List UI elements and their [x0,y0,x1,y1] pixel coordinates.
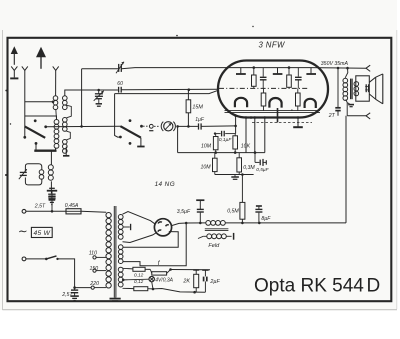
label 2,5T (C10) [61,292,73,298]
wire rectifier heater return [123,232,179,248]
svg-text:8µF: 8µF [261,216,271,222]
capacitor C12 8uF [255,206,262,223]
svg-text:Opta RK 544: Opta RK 544 [254,276,364,297]
fuse F1 0.45A [66,209,81,214]
wire grid node down to C4 [235,126,237,134]
wire junction bar (heavy) [34,150,56,152]
wire antenna node to coil tap [25,101,55,104]
wire pickup node down [177,126,179,152]
label 10M (R2) [201,143,212,149]
variable capacitor CV (tuning) to ground [94,90,104,103]
svg-text:0,12: 0,12 [134,273,144,279]
coil L1 long winding (lower left column) [54,109,59,148]
pickup symbol (detector) TA [154,122,175,131]
label 2uF [209,279,220,285]
tube internal grid dash-dot line [219,87,308,89]
wire L2 inter-winding jog bracket [67,105,72,118]
speaker LS cone [369,74,383,104]
wire pickup node to C3 [178,125,198,127]
label 0,3M [243,165,255,171]
antenna input terminal fork 1 [22,66,28,70]
tube anode hook A1 [235,98,247,107]
label Feld [208,243,220,249]
wire B+ node to field coil [186,222,206,224]
mains switch SW3 [26,256,59,260]
label 350V 35mA [321,61,349,67]
capacitor C9 2.5T line filter [48,191,55,211]
svg-text:0,45A: 0,45A [65,203,79,209]
tube heater lines [225,111,321,113]
tube pin wire 4 (rail end) [264,116,267,152]
svg-text:D: D [367,276,381,297]
wire grid line to tube (y90) [121,88,218,91]
svg-text:∼: ∼ [18,226,28,238]
capacitor C8 2T on drop [335,68,340,116]
wire SW1 left vertical [24,116,26,137]
wire L4 top to junction bar [50,151,52,165]
transformer T1 primary winding [106,213,111,289]
tube pin cathode ground [293,116,303,127]
wire second grid line (y93.6) [115,91,218,94]
capacitor C60 series 60pF [119,87,122,93]
wire SW3 to voltage selector [58,259,76,289]
wire speaker return drop to B+ rail [259,116,346,223]
ground symbol under C2 [49,200,56,205]
wire SW1 bottom to junction bar [35,143,37,150]
wire HT winding to rectifier anode top [123,212,155,224]
node pickup output [176,125,179,128]
rectifier tube U2 envelope [154,219,171,236]
wire SW1 top rail [25,116,57,120]
schematic border frame [8,38,392,301]
svg-text:110: 110 [89,251,97,257]
dial lamp LP 4V/0.3A [149,276,154,281]
capacitor C10 2.5T to ground [71,288,78,296]
wire trimmer-line drop at left [80,69,83,128]
capacitor C2 to ground [48,194,55,199]
tube anode hook A3 [305,99,316,108]
resistor R11 0.12 upper [123,267,151,271]
svg-text:15M: 15M [192,105,203,111]
connector fork speaker return [366,113,370,119]
tube grid-cap electrode T2 [273,68,283,74]
label 2K [182,279,190,285]
transformer T1 rectifier heater winding [118,245,123,264]
label f (fuse) [158,260,161,267]
resistor R4 10M (second) [213,153,218,175]
tube pin wire 3 [250,116,256,152]
coil L2 upper winding (tuned secondary) [63,96,68,110]
coil L2 lower winding [63,140,68,154]
svg-text:60: 60 [117,81,123,87]
mains terminal P2 [22,257,26,261]
svg-text:14 NG: 14 NG [155,181,175,188]
svg-text:0,3M: 0,3M [243,165,255,171]
field lower winding end bar [226,233,233,240]
capacitor C5 0.5uF to output grid [255,153,266,166]
resistor R1 15M grid leak [186,90,191,128]
capacitor C3 1uF coupling [199,123,202,129]
label 3NFW [259,40,285,49]
resistor R5 0.3M [237,153,242,175]
wire coil L1 bottom to junction bar [55,148,57,150]
output transformer T2 secondary [354,82,359,96]
svg-text:0,5M: 0,5M [227,208,239,214]
svg-text:2T: 2T [328,113,336,119]
ground under output transformer [347,103,354,107]
capacitor C13 2uF [202,270,208,292]
label 0,5uF [256,167,269,173]
wire lamp bottom [152,282,155,291]
switch SW1 arm [23,119,47,144]
coil L2 middle winding [63,118,68,132]
ground symbol under CV [96,104,102,106]
power rating box 45 W [31,227,52,237]
loop antenna frame box [25,164,41,185]
voltage tap 150 [90,266,107,272]
svg-text:1µF: 1µF [195,117,205,123]
label 1uF [195,117,205,123]
switch SW2 arm [120,119,143,145]
ground stub under L2 [63,155,69,157]
svg-text:2µF: 2µF [209,279,220,285]
phono jack J1 [149,124,153,130]
AC symbol [18,226,28,238]
capacitor C6 inside tube [260,68,267,89]
label 0,5M [227,208,239,214]
fuse f element [150,269,170,275]
svg-text:10M: 10M [201,143,212,149]
wire L4 bottom to capacitor [50,181,52,193]
capacitor C7 inside tube [295,68,302,89]
antenna input terminal fork 2 [53,66,59,70]
wire L2 lower bottom to ground stub [65,147,67,156]
wire antenna fork2 down to coil L1 [55,70,57,95]
resistor R8 inside tube lower [261,88,266,110]
svg-text:4V/0,3A: 4V/0,3A [155,278,173,284]
wire drop x114.6 to SW2 contact [115,94,122,139]
antenna A2 (main aerial arrow) [36,47,46,69]
trimmer capacitor CT2 in loop frame [19,169,27,179]
wire speaker return line [347,115,366,117]
coil L3 loops on loop frame [39,170,44,179]
capacitor C4 0.1uF grid [214,131,236,137]
speaker LS driver body [356,76,370,101]
label 4V/0,3A [155,278,173,284]
wire rectifier cathode to B+ node [172,222,188,226]
ground under transformer core [110,298,121,301]
rectifier electrodes [158,222,169,232]
wire tuned rail y90 [65,89,118,92]
coil L1 primary winding (upper left column) [53,96,58,110]
wire trimmer line (top horizontal rail) [82,68,311,69]
svg-text:0,1µF: 0,1µF [219,137,232,143]
label 0,45A [65,203,79,209]
trimmer capacitor CT1 [116,62,124,73]
speaker LS voice coil bars [365,84,369,92]
tube pin wire 2 [245,116,248,152]
wire mains line 1 [26,210,66,213]
connector fork plate line [366,65,370,71]
resistor R10 0.5M [240,175,245,223]
label 2T [328,113,336,119]
transformer T1 HT secondary winding [118,215,123,240]
svg-text:2,5T: 2,5T [34,204,46,210]
svg-text:2,5T: 2,5T [61,292,73,298]
voltage tap 220 [89,281,106,289]
svg-text:3 NFW: 3 NFW [259,40,285,49]
transformer T1 core [114,206,116,298]
wire B+ rail after choke [226,222,261,225]
resistor R12 0.12 lower [123,287,154,291]
resistor R2 10M [213,134,218,153]
wire SW1 pole to SW2 [46,125,121,128]
wire 350V plate line [311,67,366,70]
wire heater winding lower lead [123,223,187,266]
wire antenna fork1 down to node [24,70,26,116]
wire bias rail y174.5 [215,173,254,176]
tube grid-cap electrode T1 [236,68,246,74]
wire lamp network bottom rail [153,289,206,294]
label 10K [241,143,251,149]
field choke L6 lower winding [198,234,226,239]
label 60 [117,81,123,87]
resistor R7 inside tube [287,66,292,88]
transformer T1 lamp/heater winding [118,267,123,287]
wire HT winding to rectifier anode bottom [123,233,157,243]
wire selector to 220 tap [75,287,91,289]
wire winding tap to lamp [122,279,149,282]
label 2,5T (C9) [34,204,46,210]
ground symbol on bias rail [231,175,239,180]
label 0,12 upper [134,273,144,279]
tube pin wire grid1 [234,114,237,126]
svg-text:0,5µF: 0,5µF [256,167,269,173]
label 0,12 lower [134,279,144,285]
wire transformer bottom to return line [346,103,348,116]
svg-text:10M: 10M [201,165,212,171]
label 14 NG (rectifier tube type) [155,181,175,188]
tube anode hook A2 [269,98,281,108]
dashed line below tube right [252,122,312,124]
wire lamp rail to 2K/2uF [169,268,210,271]
wire SW2 to jack (dashed) [143,125,149,127]
tube pin stub (anode lead) [277,108,279,123]
output transformer T2 core [351,79,353,100]
capacitor C11 3.5uF [196,200,204,224]
output transformer T2 primary [343,68,348,103]
label Opta RK 544 D [254,276,380,297]
label 8uF [261,216,271,222]
wire cathode rail y152.6 [178,151,265,154]
wire fuse to transformer [81,211,106,212]
svg-text:Feld: Feld [208,243,220,249]
field choke L5 series winding [206,221,226,226]
svg-text:45 W: 45 W [34,230,51,237]
wire C3 to grid node [201,125,237,128]
tube U1 3NFW envelope [218,61,328,118]
resistor R9 inside tube lower [296,88,301,110]
field choke core lines [205,229,229,231]
svg-text:0,12: 0,12 [134,279,144,285]
svg-text:3,5µF: 3,5µF [177,209,191,215]
label 15M [192,105,203,111]
wire L2 top to tuned line [65,90,67,96]
voltage tap 110 [89,251,107,259]
scan speckle marks [5,26,293,176]
wire L2 lower jog [67,131,71,140]
mains terminal P1 [22,209,26,213]
resistor R6 inside tube [252,66,257,88]
svg-text:2K: 2K [182,279,190,285]
transformer screen plate stub [123,224,131,230]
resistor R13 2K [193,270,199,293]
svg-text:220: 220 [89,281,99,287]
resistor R3 10K [233,134,238,153]
ground stub under SW2 [137,138,144,147]
label 0,1uF [219,137,232,143]
label 10M (R4) [201,165,212,171]
ground under C10 [70,296,78,300]
ground above C9 [47,188,57,190]
antenna A1 (throw-out aerial with earth bar) [10,46,18,78]
coil L4 coupling winding [48,165,53,180]
label 3,5uF [177,209,191,215]
tube grid-cap electrode T3 [306,68,316,74]
svg-text:350V 35mA: 350V 35mA [321,61,349,67]
